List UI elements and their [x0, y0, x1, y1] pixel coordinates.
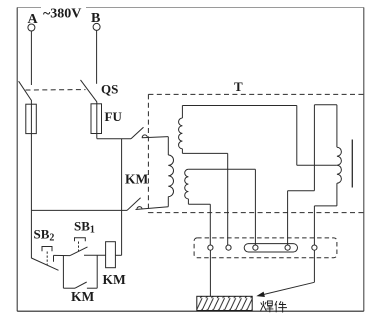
- svg-text:KM: KM: [71, 289, 95, 304]
- svg-text:B: B: [91, 11, 100, 26]
- svg-text:KM: KM: [103, 272, 127, 287]
- svg-text:~380V: ~380V: [43, 6, 81, 21]
- svg-text:KM: KM: [125, 171, 149, 186]
- svg-text:A: A: [28, 12, 39, 27]
- svg-text:T: T: [234, 79, 243, 94]
- svg-text:QS: QS: [101, 81, 118, 96]
- svg-text:FU: FU: [105, 109, 123, 124]
